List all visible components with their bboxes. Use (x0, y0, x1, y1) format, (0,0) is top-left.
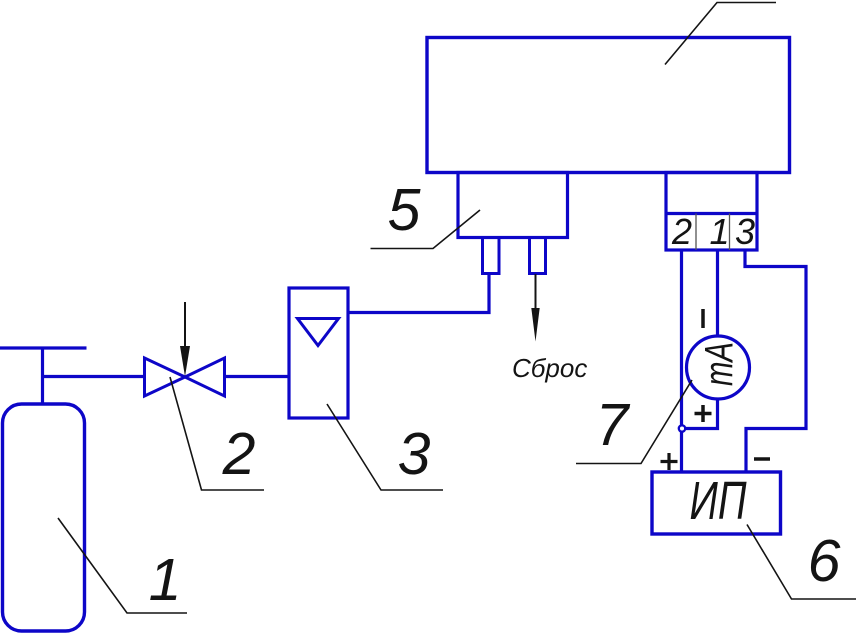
svg-text:7: 7 (596, 392, 631, 458)
label 3 (398, 421, 431, 487)
sensor block 5 (458, 173, 568, 238)
cylinder valve tee (0, 348, 87, 404)
leader line 7 (576, 380, 692, 464)
label 6 (808, 528, 841, 594)
valve 2 (145, 358, 225, 396)
terminal box under analyzer (666, 173, 757, 251)
svg-text:2: 2 (671, 211, 692, 252)
terminal label 3 (735, 211, 755, 252)
minus mark at milliammeter (rotated) (701, 309, 705, 328)
pipe rotameter to block 5 (348, 274, 489, 313)
svg-text:3: 3 (398, 421, 431, 487)
label 2 (222, 421, 256, 487)
svg-text:6: 6 (808, 528, 841, 594)
plus mark at milliammeter (695, 405, 712, 422)
inlet pin of block 5 (483, 238, 500, 274)
minus mark at power supply (754, 457, 770, 461)
junction node (679, 425, 685, 431)
valve stem arrow (180, 302, 190, 377)
wire milliammeter to junction (682, 399, 718, 429)
analyzer unit 4 (main block) (427, 38, 790, 173)
power supply unit 6 (652, 471, 781, 534)
leader line 2 (170, 377, 264, 490)
terminal label 1 (709, 211, 729, 252)
wire terminal1 to milliammeter (716, 250, 719, 336)
leader line 3 (327, 404, 443, 490)
wire terminal3 loop to power supply minus (745, 250, 806, 472)
wire terminal2 to power supply plus (680, 250, 683, 472)
vent arrow (531, 274, 539, 342)
pipe valve to rotameter (224, 375, 289, 378)
svg-text:ИП: ИП (690, 471, 748, 531)
terminal divider right (729, 214, 731, 251)
terminal label 2 (671, 211, 692, 252)
terminal divider left (695, 214, 697, 251)
outlet pin of block 5 (530, 238, 546, 274)
svg-text:5: 5 (388, 177, 421, 243)
svg-text:3: 3 (735, 211, 755, 252)
label 1 (149, 547, 182, 613)
pipe cylinder to valve (43, 375, 146, 378)
svg-text:1: 1 (709, 211, 729, 252)
gas cylinder 1 (3, 404, 85, 631)
svg-text:1: 1 (149, 547, 182, 613)
label 7 (596, 392, 631, 458)
leader line to analyzer unit (label off canvas) (665, 3, 776, 65)
svg-text:Сброс: Сброс (512, 353, 587, 383)
leader line 1 (58, 518, 187, 613)
svg-text:2: 2 (222, 421, 256, 487)
leader line 6 (747, 525, 856, 600)
plus mark at power supply (661, 453, 678, 470)
leader line 5 (371, 210, 481, 249)
svg-text:mA: mA (698, 342, 742, 386)
label 5 (388, 177, 421, 243)
rotameter 3 (289, 288, 348, 418)
vent label Сброс (512, 353, 587, 383)
milliammeter 7 (687, 336, 750, 399)
